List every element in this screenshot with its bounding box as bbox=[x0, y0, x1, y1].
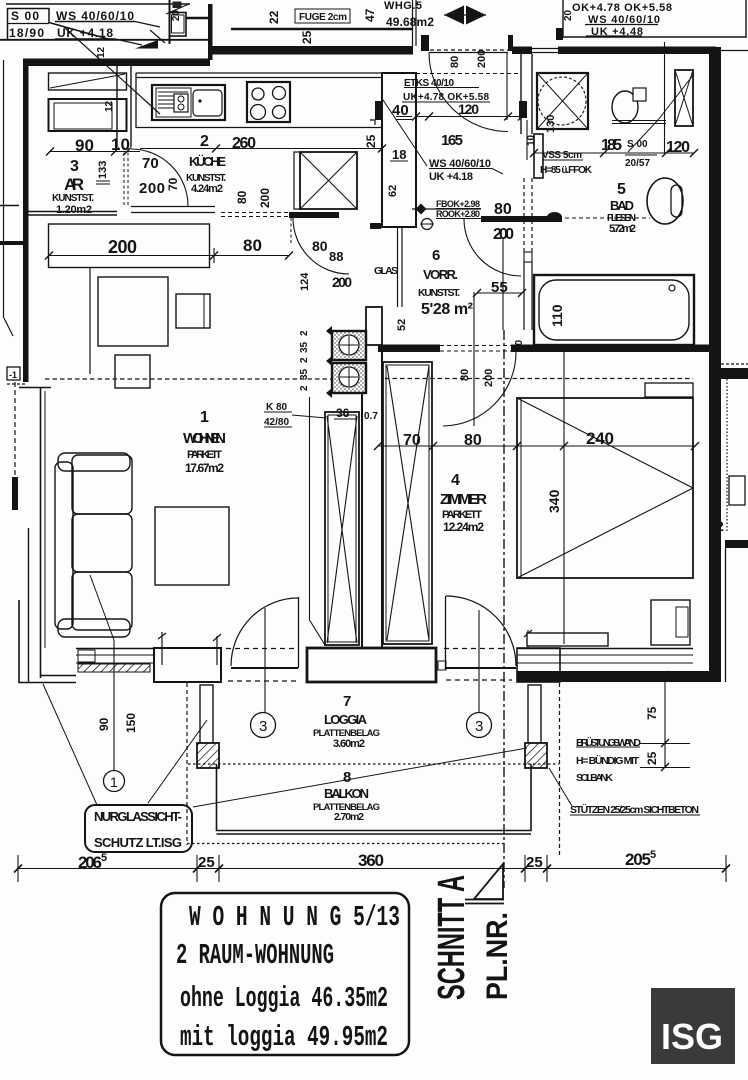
svg-text:7: 7 bbox=[343, 693, 351, 710]
svg-text:80: 80 bbox=[243, 236, 262, 255]
svg-text:10: 10 bbox=[514, 339, 525, 351]
svg-text:5: 5 bbox=[101, 852, 107, 864]
svg-text:80: 80 bbox=[464, 432, 482, 449]
svg-text:H=85 ü.FFOK: H=85 ü.FFOK bbox=[540, 165, 593, 176]
svg-text:80: 80 bbox=[459, 369, 471, 381]
svg-text:5: 5 bbox=[650, 849, 656, 861]
svg-text:2.70m2: 2.70m2 bbox=[334, 811, 364, 823]
svg-text:WS 40/60/10: WS 40/60/10 bbox=[56, 9, 134, 23]
svg-text:90: 90 bbox=[75, 136, 94, 155]
svg-text:22: 22 bbox=[267, 10, 281, 24]
svg-text:WS 40/60/10: WS 40/60/10 bbox=[588, 14, 660, 26]
svg-text:340: 340 bbox=[546, 489, 562, 513]
svg-text:36: 36 bbox=[336, 406, 350, 420]
svg-text:ZIMMER: ZIMMER bbox=[440, 491, 487, 508]
svg-text:120: 120 bbox=[458, 101, 479, 117]
svg-text:S 00: S 00 bbox=[11, 9, 39, 23]
svg-text:130: 130 bbox=[545, 115, 557, 133]
svg-text:2: 2 bbox=[200, 133, 209, 150]
svg-text:KÜCHE: KÜCHE bbox=[189, 154, 226, 169]
svg-text:10: 10 bbox=[526, 134, 537, 146]
svg-text:42/80: 42/80 bbox=[264, 417, 289, 428]
svg-text:18/90: 18/90 bbox=[9, 26, 44, 40]
svg-text:150: 150 bbox=[124, 713, 138, 733]
svg-text:70: 70 bbox=[166, 177, 180, 191]
svg-text:206: 206 bbox=[78, 853, 102, 872]
svg-text:UK +4.18: UK +4.18 bbox=[429, 171, 473, 183]
svg-text:12: 12 bbox=[104, 100, 115, 112]
svg-text:70: 70 bbox=[403, 432, 421, 449]
svg-text:5.72m2: 5.72m2 bbox=[609, 223, 636, 235]
svg-text:1: 1 bbox=[200, 409, 209, 426]
svg-text:110: 110 bbox=[549, 304, 565, 327]
svg-text:KUNSTST.: KUNSTST. bbox=[418, 287, 460, 299]
svg-text:WOHNEN: WOHNEN bbox=[183, 430, 226, 447]
svg-text:W O H N U N G 5/13: W O H N U N G 5/13 bbox=[189, 901, 400, 934]
svg-text:BALKON: BALKON bbox=[324, 786, 369, 801]
svg-text:1: 1 bbox=[110, 774, 118, 790]
svg-text:FUGE 2cm: FUGE 2cm bbox=[299, 12, 347, 23]
svg-text:20: 20 bbox=[171, 10, 182, 22]
svg-text:2: 2 bbox=[299, 385, 310, 391]
svg-text:4: 4 bbox=[451, 472, 460, 489]
svg-text:1.20m2: 1.20m2 bbox=[56, 204, 92, 216]
svg-text:62: 62 bbox=[387, 185, 399, 197]
svg-text:25: 25 bbox=[645, 751, 659, 765]
svg-text:WHG.5: WHG.5 bbox=[384, 0, 422, 12]
svg-text:2: 2 bbox=[716, 518, 724, 534]
svg-text:200: 200 bbox=[332, 274, 352, 290]
svg-text:52: 52 bbox=[396, 319, 408, 331]
svg-text:120: 120 bbox=[666, 139, 690, 156]
svg-text:20/57: 20/57 bbox=[625, 158, 650, 169]
svg-text:360: 360 bbox=[358, 851, 384, 870]
svg-text:25: 25 bbox=[198, 854, 215, 871]
svg-text:STÜTZEN 25/25cm SICHTBETON: STÜTZEN 25/25cm SICHTBETON bbox=[570, 803, 699, 816]
svg-text:K 80: K 80 bbox=[266, 402, 288, 413]
svg-text:2: 2 bbox=[299, 357, 310, 363]
svg-text:8: 8 bbox=[343, 769, 351, 786]
svg-text:AR: AR bbox=[64, 175, 84, 194]
svg-text:10: 10 bbox=[111, 135, 130, 154]
svg-text:LOGGIA: LOGGIA bbox=[324, 712, 368, 727]
svg-text:6: 6 bbox=[432, 247, 440, 264]
svg-text:VSS 5cm: VSS 5cm bbox=[542, 150, 582, 161]
svg-text:80: 80 bbox=[494, 201, 512, 218]
svg-text:12.24m2: 12.24m2 bbox=[443, 520, 484, 534]
svg-text:SCHUTZ LT.ISG: SCHUTZ LT.ISG bbox=[94, 835, 182, 850]
svg-text:18: 18 bbox=[392, 147, 406, 162]
svg-text:SCHNITT A: SCHNITT A bbox=[431, 875, 473, 1000]
svg-text:200: 200 bbox=[493, 226, 514, 243]
svg-text:UK +4.48: UK +4.48 bbox=[591, 26, 643, 38]
svg-text:205: 205 bbox=[625, 850, 651, 869]
svg-text:GLAS: GLAS bbox=[374, 265, 398, 277]
svg-text:0.7: 0.7 bbox=[364, 411, 378, 422]
svg-text:OK+4.78 OK+5.58: OK+4.78 OK+5.58 bbox=[572, 2, 672, 14]
svg-text:VORR.: VORR. bbox=[423, 267, 458, 282]
svg-text:25: 25 bbox=[300, 30, 314, 44]
svg-text:80: 80 bbox=[449, 56, 461, 68]
svg-text:88: 88 bbox=[329, 249, 343, 264]
svg-text:2: 2 bbox=[299, 330, 310, 336]
svg-text:90: 90 bbox=[97, 717, 111, 731]
svg-text:2 RAUM-WOHNUNG: 2 RAUM-WOHNUNG bbox=[176, 939, 334, 972]
svg-text:35: 35 bbox=[299, 341, 310, 353]
svg-text:NURGLASSICHT-: NURGLASSICHT- bbox=[94, 809, 182, 824]
svg-text:ohne Loggia 46.35m2: ohne Loggia 46.35m2 bbox=[180, 982, 388, 1015]
svg-text:70: 70 bbox=[142, 155, 159, 172]
svg-text:200: 200 bbox=[483, 369, 495, 387]
svg-text:3: 3 bbox=[475, 718, 483, 735]
svg-text:4.24m2: 4.24m2 bbox=[191, 183, 223, 195]
svg-text:FBOK+2.98: FBOK+2.98 bbox=[436, 199, 480, 209]
svg-text:75: 75 bbox=[645, 706, 659, 720]
svg-text:260: 260 bbox=[232, 135, 256, 152]
svg-text:133: 133 bbox=[97, 161, 109, 179]
svg-text:PL.NR.: PL.NR. bbox=[481, 912, 514, 1000]
svg-text:240: 240 bbox=[586, 429, 614, 448]
svg-text:200: 200 bbox=[139, 180, 165, 197]
svg-text:ISG: ISG bbox=[661, 1016, 723, 1057]
svg-text:3: 3 bbox=[70, 158, 79, 175]
svg-text:47: 47 bbox=[363, 8, 377, 22]
svg-text:mit loggia 49.95m2: mit loggia 49.95m2 bbox=[180, 1021, 388, 1054]
svg-text:25: 25 bbox=[526, 854, 543, 871]
svg-text:165: 165 bbox=[441, 132, 463, 149]
svg-text:BRÜSTUNGSWAND: BRÜSTUNGSWAND bbox=[576, 736, 641, 749]
svg-text:80: 80 bbox=[235, 190, 249, 204]
svg-text:PARKETT: PARKETT bbox=[187, 449, 222, 461]
svg-text:3: 3 bbox=[259, 718, 267, 735]
svg-text:35: 35 bbox=[299, 368, 310, 380]
svg-text:ROOK+2.80: ROOK+2.80 bbox=[436, 209, 480, 219]
svg-text:49.68m2: 49.68m2 bbox=[386, 15, 434, 29]
svg-text:80: 80 bbox=[312, 238, 328, 254]
svg-text:5: 5 bbox=[617, 181, 626, 198]
svg-text:17.67m2: 17.67m2 bbox=[185, 461, 224, 475]
svg-text:200: 200 bbox=[108, 237, 137, 257]
svg-text:BAD: BAD bbox=[610, 198, 634, 213]
svg-text:-1: -1 bbox=[9, 370, 17, 380]
svg-text:200: 200 bbox=[476, 50, 488, 68]
svg-text:200: 200 bbox=[258, 188, 272, 208]
svg-text:12: 12 bbox=[96, 46, 107, 58]
svg-text:S 00: S 00 bbox=[627, 139, 648, 150]
svg-text:UK +4.18: UK +4.18 bbox=[57, 26, 113, 40]
svg-text:25: 25 bbox=[364, 134, 378, 148]
svg-text:124: 124 bbox=[299, 272, 311, 291]
svg-text:20: 20 bbox=[563, 9, 574, 21]
svg-text:KUNSTST.: KUNSTST. bbox=[52, 193, 94, 204]
svg-text:H= BÜNDIG MIT: H= BÜNDIG MIT bbox=[576, 754, 640, 767]
svg-text:55: 55 bbox=[491, 279, 508, 296]
svg-text:5'28 m²: 5'28 m² bbox=[421, 301, 473, 318]
svg-text:3.60m2: 3.60m2 bbox=[333, 738, 365, 750]
svg-text:185: 185 bbox=[601, 137, 622, 154]
svg-text:SOLBANK: SOLBANK bbox=[576, 772, 613, 784]
